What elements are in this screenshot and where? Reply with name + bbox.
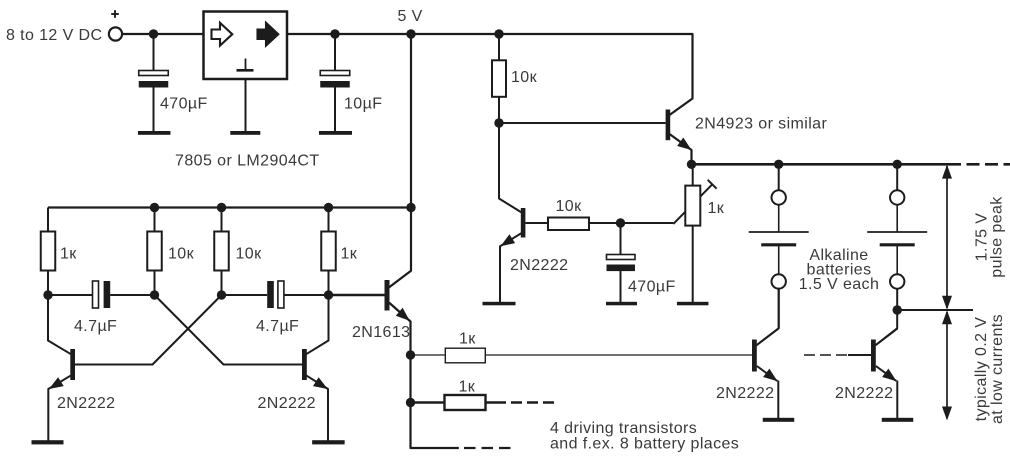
svg-text:2N4923 or similar: 2N4923 or similar: [695, 115, 827, 132]
svg-text:1к: 1к: [459, 330, 476, 347]
svg-text:1к: 1к: [459, 378, 476, 395]
svg-text:10µF: 10µF: [344, 95, 382, 112]
svg-text:10к: 10к: [511, 69, 538, 86]
svg-text:and f.ex. 8 battery places: and f.ex. 8 battery places: [550, 435, 739, 452]
svg-text:1к: 1к: [341, 245, 358, 262]
svg-text:2N2222: 2N2222: [835, 385, 893, 402]
svg-text:5 V: 5 V: [398, 8, 423, 25]
svg-text:2N2222: 2N2222: [258, 395, 316, 412]
svg-text:7805 or LM2904CT: 7805 or LM2904CT: [175, 152, 320, 169]
svg-text:2N1613: 2N1613: [352, 324, 410, 341]
svg-text:4.7µF: 4.7µF: [256, 318, 299, 335]
svg-text:10к: 10к: [168, 245, 195, 262]
svg-text:10к: 10к: [236, 245, 263, 262]
svg-text:1.5 V each: 1.5 V each: [799, 276, 880, 293]
svg-text:at low currents: at low currents: [989, 314, 1006, 424]
svg-text:470µF: 470µF: [160, 95, 208, 112]
svg-text:8 to 12 V DC: 8 to 12 V DC: [6, 27, 102, 44]
svg-text:2N2222: 2N2222: [510, 257, 568, 274]
svg-text:1к: 1к: [60, 245, 77, 262]
svg-text:4 driving transistors: 4 driving transistors: [550, 420, 697, 437]
svg-text:470µF: 470µF: [628, 278, 676, 295]
svg-text:typically 0.2 V: typically 0.2 V: [973, 317, 990, 422]
svg-text:1к: 1к: [708, 200, 725, 217]
svg-text:pulse peak: pulse peak: [989, 196, 1006, 278]
svg-text:2N2222: 2N2222: [716, 385, 774, 402]
svg-text:4.7µF: 4.7µF: [74, 318, 117, 335]
svg-text:10к: 10к: [556, 198, 583, 215]
svg-text:2N2222: 2N2222: [57, 395, 115, 412]
